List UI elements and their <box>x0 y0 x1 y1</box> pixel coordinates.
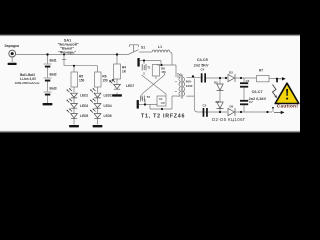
svg-text:LED7: LED7 <box>126 84 134 88</box>
svg-text:R9: R9 <box>159 97 163 101</box>
svg-text:D2: D2 <box>214 81 218 85</box>
svg-text:LED3: LED3 <box>80 104 88 108</box>
svg-text:C6-C7: C6-C7 <box>252 90 263 94</box>
svg-text:"Фонарь": "Фонарь" <box>58 50 76 54</box>
svg-text:Bat2: Bat2 <box>50 73 57 77</box>
svg-text:LED1: LED1 <box>80 94 88 98</box>
svg-text:C6: C6 <box>246 79 250 83</box>
svg-text:100: 100 <box>161 101 166 105</box>
svg-text:Tr1: Tr1 <box>177 73 182 77</box>
svg-text:D4: D4 <box>216 100 220 104</box>
svg-text:Bat1: Bat1 <box>50 59 57 63</box>
svg-text:150: 150 <box>102 79 108 83</box>
svg-text:LED6: LED6 <box>104 114 112 118</box>
svg-text:D5: D5 <box>230 104 234 108</box>
svg-text:D3: D3 <box>229 71 233 75</box>
svg-text:Зарядка: Зарядка <box>4 44 20 48</box>
svg-text:2n2 6,3kV: 2n2 6,3kV <box>249 97 267 101</box>
svg-text:C5: C5 <box>203 104 207 108</box>
svg-text:D2-D5 КЦ106Г: D2-D5 КЦ106Г <box>212 117 246 122</box>
svg-text:LED5: LED5 <box>80 114 88 118</box>
svg-text:LED2: LED2 <box>104 94 112 98</box>
svg-text:Bat3: Bat3 <box>50 87 57 91</box>
svg-text:1000-2000mA/час: 1000-2000mA/час <box>15 81 40 85</box>
svg-text:L1: L1 <box>158 45 162 49</box>
svg-text:150: 150 <box>161 70 166 74</box>
svg-text:150: 150 <box>79 79 85 83</box>
svg-text:1K: 1K <box>122 69 127 73</box>
svg-text:C4: C4 <box>201 68 205 72</box>
svg-text:1000: 1000 <box>186 84 193 88</box>
svg-text:T1: T1 <box>147 66 151 70</box>
svg-text:S1: S1 <box>141 46 145 50</box>
svg-text:T2: T2 <box>147 95 151 99</box>
svg-text:C4-C5: C4-C5 <box>197 58 208 62</box>
svg-text:LED4: LED4 <box>104 104 112 108</box>
svg-text:T1, T2 IRFZ46: T1, T2 IRFZ46 <box>141 114 185 120</box>
svg-text:R7: R7 <box>259 69 263 73</box>
svg-text:Caution!: Caution! <box>277 104 299 109</box>
